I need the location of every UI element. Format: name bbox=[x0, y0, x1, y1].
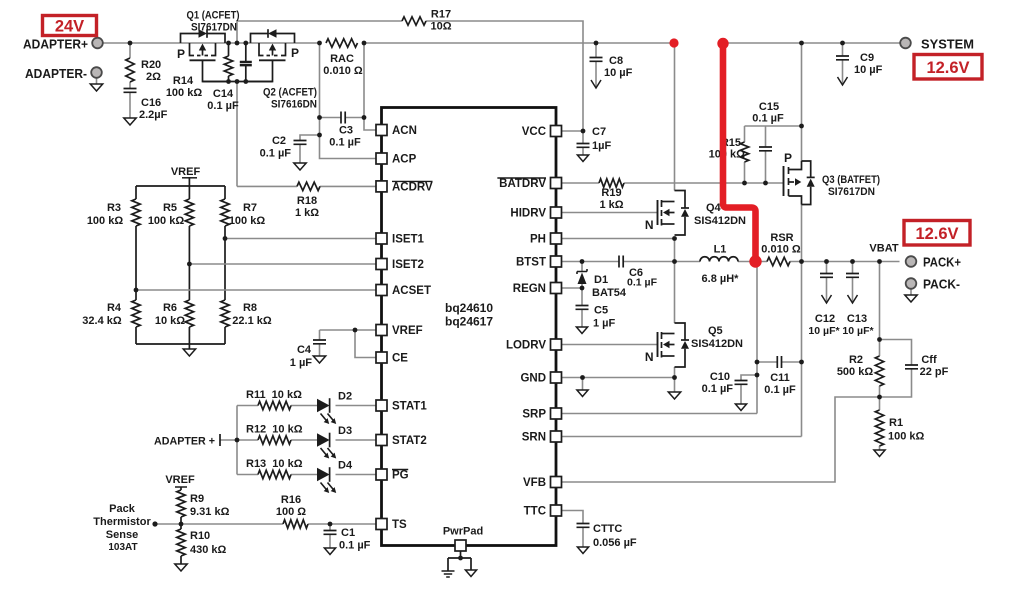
ground C7 bbox=[577, 155, 588, 162]
wire BATDRV row bbox=[562, 182, 599, 184]
wire VBAT column R2/R1 bbox=[879, 262, 881, 357]
svg-text:R11 10 kΩ: R11 10 kΩ bbox=[246, 389, 302, 401]
svg-text:HIDRV: HIDRV bbox=[510, 208, 546, 220]
svg-text:ADAPTER +: ADAPTER + bbox=[154, 436, 215, 448]
svg-text:0.056 µF: 0.056 µF bbox=[593, 537, 637, 549]
svg-text:STAT2: STAT2 bbox=[392, 435, 427, 447]
ground CTTC bbox=[577, 547, 588, 554]
wire HIDRV row bbox=[562, 212, 658, 214]
svg-text:PG: PG bbox=[392, 470, 409, 482]
red box 12.6V system bbox=[914, 55, 982, 80]
resistor R19 bbox=[599, 179, 624, 187]
svg-text:Pack: Pack bbox=[109, 503, 136, 515]
svg-text:1 µF: 1 µF bbox=[290, 357, 313, 369]
wire STAT2 row bbox=[237, 439, 258, 441]
red box 12.6V pack bbox=[904, 221, 970, 246]
svg-text:Cff: Cff bbox=[921, 354, 937, 366]
svg-text:TTC: TTC bbox=[524, 506, 546, 518]
ground arrow C13 bbox=[848, 295, 858, 303]
svg-text:BATDRV: BATDRV bbox=[499, 178, 546, 190]
transistor Q1 ACFET bbox=[181, 34, 199, 44]
wire R10 to ground bbox=[180, 524, 182, 529]
svg-text:ACP: ACP bbox=[392, 154, 417, 166]
wire Q3 column upper bbox=[801, 43, 803, 161]
svg-text:L1: L1 bbox=[714, 244, 727, 256]
capacitor C7 bbox=[577, 144, 590, 148]
wire ISET2 row bbox=[189, 263, 376, 265]
capacitor C1 bbox=[324, 531, 337, 535]
LED D2 bbox=[317, 399, 330, 413]
wire Q4-Q5 drain link bbox=[674, 239, 676, 324]
pin PH bbox=[551, 233, 562, 244]
svg-text:R5: R5 bbox=[163, 202, 177, 214]
svg-text:1 µF: 1 µF bbox=[593, 318, 616, 330]
svg-text:D4: D4 bbox=[338, 460, 353, 472]
capacitor C16 bbox=[124, 89, 137, 93]
svg-text:R3: R3 bbox=[107, 202, 121, 214]
ground C5 bbox=[576, 327, 587, 334]
svg-text:TS: TS bbox=[392, 519, 407, 531]
LED D3 bbox=[317, 433, 330, 447]
LED D4 bbox=[317, 468, 330, 482]
wire VREF to R9 bbox=[180, 487, 182, 490]
svg-text:PACK+: PACK+ bbox=[923, 255, 961, 270]
pin SRP bbox=[551, 408, 562, 419]
wire bank column R3/R4 bbox=[135, 186, 137, 199]
resistor R18 bbox=[297, 182, 320, 190]
svg-text:LODRV: LODRV bbox=[506, 340, 546, 352]
svg-text:R8: R8 bbox=[243, 302, 257, 314]
svg-text:D3: D3 bbox=[338, 425, 352, 437]
svg-text:SYSTEM: SYSTEM bbox=[921, 37, 974, 52]
svg-text:9.31 kΩ: 9.31 kΩ bbox=[190, 506, 230, 518]
wire main rail right segment to SYSTEM bbox=[728, 42, 900, 44]
wire C12 branch bbox=[826, 262, 828, 274]
svg-text:VBAT: VBAT bbox=[869, 243, 898, 255]
wire C10 stub bbox=[741, 375, 757, 381]
wire ACSET row bbox=[136, 289, 376, 291]
wire BTST row with C6 bbox=[562, 261, 619, 263]
IC U1 bq24610 outline bbox=[382, 108, 557, 546]
svg-text:N: N bbox=[645, 218, 654, 232]
wire TTC to CTTC bbox=[562, 511, 583, 524]
svg-text:100 Ω: 100 Ω bbox=[276, 506, 306, 518]
svg-text:ADAPTER+: ADAPTER+ bbox=[23, 37, 88, 52]
capacitor C8 bbox=[590, 58, 603, 62]
svg-text:SRP: SRP bbox=[522, 409, 546, 421]
pin STAT1 bbox=[376, 400, 387, 411]
capacitor C6 bbox=[619, 256, 623, 268]
svg-text:C5: C5 bbox=[594, 305, 608, 317]
ground C2 bbox=[294, 163, 306, 170]
svg-text:ISET2: ISET2 bbox=[392, 259, 424, 271]
svg-text:C11: C11 bbox=[770, 372, 790, 384]
wire REGN row bbox=[562, 287, 582, 289]
svg-text:R1: R1 bbox=[889, 417, 903, 429]
svg-text:R13 10 kΩ: R13 10 kΩ bbox=[246, 458, 303, 470]
wire bank column R7/R8 bbox=[224, 186, 226, 199]
svg-text:100 kΩ: 100 kΩ bbox=[709, 149, 746, 161]
wire GND row bbox=[562, 377, 675, 379]
svg-text:C16: C16 bbox=[141, 97, 161, 109]
transistor Q5 SIS412DN bbox=[657, 332, 659, 357]
red wire highlight bbox=[723, 44, 756, 258]
svg-text:bq24610: bq24610 bbox=[445, 301, 493, 315]
wire LED bus bbox=[236, 406, 238, 475]
pin TTC bbox=[551, 505, 562, 516]
svg-text:ACSET: ACSET bbox=[392, 285, 431, 297]
capacitor C10 bbox=[735, 381, 748, 385]
svg-text:BTST: BTST bbox=[516, 257, 546, 269]
svg-text:12.6V: 12.6V bbox=[915, 225, 958, 243]
wire RSR to battery rail bbox=[790, 261, 900, 263]
resistor RAC bbox=[326, 39, 358, 47]
svg-text:BAT54: BAT54 bbox=[592, 287, 627, 299]
svg-text:SRN: SRN bbox=[522, 432, 546, 444]
pin VFB bbox=[551, 477, 562, 488]
wire STAT1 row bbox=[237, 405, 258, 407]
svg-text:R7: R7 bbox=[243, 202, 257, 214]
svg-text:Q1 (ACFET): Q1 (ACFET) bbox=[187, 10, 240, 22]
wire Cff loop bbox=[880, 340, 912, 366]
pin STAT2 bbox=[376, 435, 387, 446]
transistor Q2 ACFET bbox=[251, 34, 269, 44]
pin TS bbox=[376, 519, 387, 530]
ground GND pin left bbox=[577, 390, 588, 397]
wire ADAPTER+ LED feed bbox=[220, 439, 237, 441]
wire main rail RAC to red dot bbox=[364, 42, 670, 44]
red node dot bottom bbox=[749, 255, 761, 267]
svg-text:0.1 µF: 0.1 µF bbox=[752, 113, 784, 125]
svg-text:C10: C10 bbox=[710, 371, 730, 383]
svg-text:R19: R19 bbox=[601, 187, 621, 199]
svg-text:10 µF: 10 µF bbox=[604, 67, 633, 79]
transistor Q4 SIS412DN bbox=[657, 200, 659, 225]
svg-text:SIS412DN: SIS412DN bbox=[691, 338, 743, 350]
wire PG row bbox=[237, 474, 258, 476]
svg-text:430 kΩ: 430 kΩ bbox=[190, 544, 227, 556]
resistor RSR bbox=[767, 257, 790, 265]
ground C1 bbox=[324, 548, 335, 555]
svg-text:0.010 Ω: 0.010 Ω bbox=[323, 65, 363, 77]
wire PH row bbox=[562, 238, 675, 240]
pin PG bbox=[376, 469, 387, 480]
svg-text:D2: D2 bbox=[338, 391, 352, 403]
svg-text:R2: R2 bbox=[849, 354, 863, 366]
pin CE bbox=[376, 352, 387, 363]
svg-text:12.6V: 12.6V bbox=[926, 59, 969, 77]
wire SRN row and riser bbox=[562, 436, 802, 438]
svg-text:STAT1: STAT1 bbox=[392, 401, 427, 413]
svg-text:D1: D1 bbox=[594, 274, 608, 286]
resistor R11 bbox=[258, 401, 291, 409]
svg-text:0.1 µF: 0.1 µF bbox=[339, 540, 371, 552]
svg-text:PH: PH bbox=[530, 234, 546, 246]
resistor R10 bbox=[177, 529, 185, 556]
pin VREF bbox=[376, 325, 387, 336]
svg-text:C15: C15 bbox=[759, 101, 779, 113]
resistor R20 bbox=[126, 58, 134, 82]
svg-text:R6: R6 bbox=[163, 302, 177, 314]
svg-text:R18: R18 bbox=[297, 195, 317, 207]
wire L1 row bbox=[675, 261, 701, 263]
pin REGN bbox=[551, 283, 562, 294]
wire GND grounds stems bbox=[582, 378, 584, 391]
svg-text:10Ω: 10Ω bbox=[430, 21, 451, 33]
wire bank column R5/R6 bbox=[188, 186, 190, 199]
terminal PACK- bbox=[906, 278, 917, 289]
svg-text:SI7616DN: SI7616DN bbox=[271, 99, 317, 111]
svg-text:RAC: RAC bbox=[330, 53, 354, 65]
ground ADAPTER- bbox=[90, 84, 102, 91]
pin LODRV bbox=[551, 339, 562, 350]
svg-text:R16: R16 bbox=[281, 494, 301, 506]
svg-text:P: P bbox=[177, 47, 185, 61]
pin BATDRV bbox=[551, 178, 562, 189]
wire C7 stem bbox=[582, 131, 584, 144]
ground PwrPad earth bbox=[442, 571, 455, 577]
svg-text:1 kΩ: 1 kΩ bbox=[599, 199, 623, 211]
svg-text:0.010 Ω: 0.010 Ω bbox=[761, 244, 801, 256]
svg-text:0.1 µF: 0.1 µF bbox=[627, 277, 658, 289]
capacitor C5 bbox=[576, 306, 589, 310]
svg-text:SI7617DN: SI7617DN bbox=[191, 22, 237, 34]
ground arrow C9 bbox=[838, 77, 848, 85]
svg-text:VCC: VCC bbox=[522, 126, 546, 138]
svg-text:R12 10 kΩ: R12 10 kΩ bbox=[246, 424, 303, 436]
svg-text:C2: C2 bbox=[272, 135, 286, 147]
pin ISET2 bbox=[376, 259, 387, 270]
svg-text:Q4: Q4 bbox=[706, 202, 722, 214]
svg-text:C13: C13 bbox=[847, 313, 867, 325]
svg-text:C8: C8 bbox=[609, 55, 623, 67]
wire ISET1 row bbox=[225, 238, 376, 240]
resistor R14 bbox=[228, 43, 230, 56]
svg-text:22.1 kΩ: 22.1 kΩ bbox=[232, 315, 272, 327]
pin HIDRV bbox=[551, 207, 562, 218]
ground GND pin right bbox=[668, 392, 680, 399]
svg-text:R10: R10 bbox=[190, 530, 210, 542]
svg-text:P: P bbox=[291, 46, 299, 60]
capacitor CTTC bbox=[577, 524, 590, 528]
wire LODRV row bbox=[562, 344, 658, 346]
svg-text:100 kΩ: 100 kΩ bbox=[888, 431, 925, 443]
svg-text:CTTC: CTTC bbox=[593, 523, 622, 535]
wire Q5 source to GND row bbox=[674, 367, 676, 378]
ground resistor bank bbox=[183, 349, 195, 356]
svg-text:REGN: REGN bbox=[513, 283, 546, 295]
svg-text:24V: 24V bbox=[55, 18, 84, 36]
capacitor C15 bbox=[759, 147, 772, 151]
resistor R1 bbox=[875, 410, 883, 446]
wire ADAPTER- ground stem bbox=[96, 78, 98, 84]
capacitor C3 bbox=[341, 112, 345, 124]
svg-text:0.1 µF: 0.1 µF bbox=[260, 148, 292, 160]
red node dot top big bbox=[717, 38, 728, 49]
svg-text:Sense: Sense bbox=[106, 529, 138, 541]
wire RAC left riser to ACP bbox=[320, 43, 377, 159]
wire TS row bbox=[155, 523, 283, 525]
svg-text:10 µF*: 10 µF* bbox=[842, 325, 874, 337]
svg-text:PACK-: PACK- bbox=[923, 277, 960, 292]
wire Q1-Q2 gate node bbox=[203, 81, 273, 83]
resistor R5 bbox=[185, 199, 193, 226]
capacitor C13 bbox=[846, 274, 859, 278]
wire CE connection bbox=[355, 330, 376, 358]
capacitor C4 bbox=[313, 340, 326, 344]
svg-text:PwrPad: PwrPad bbox=[443, 526, 483, 538]
wire resistor bank bottom bus bbox=[136, 343, 225, 345]
pin ACSET bbox=[376, 285, 387, 296]
capacitor C12 bbox=[820, 274, 833, 278]
svg-text:Q5: Q5 bbox=[708, 325, 723, 337]
svg-text:1µF: 1µF bbox=[592, 140, 611, 152]
ground PACK- bbox=[905, 295, 917, 302]
svg-text:C14: C14 bbox=[213, 88, 234, 100]
wire C13 branch bbox=[852, 262, 854, 274]
pin ACDRV bbox=[376, 181, 387, 192]
wire R9 to TS row bbox=[180, 517, 182, 524]
wire VREF stem top bbox=[188, 177, 190, 186]
ground arrow C12 bbox=[822, 295, 832, 303]
resistor R17 bbox=[402, 17, 426, 25]
svg-text:0.1 µF: 0.1 µF bbox=[207, 100, 239, 112]
svg-text:SI7617DN: SI7617DN bbox=[828, 186, 875, 198]
svg-text:2.2µF: 2.2µF bbox=[139, 109, 168, 121]
svg-text:C3: C3 bbox=[339, 125, 353, 137]
capacitor Cff bbox=[905, 365, 918, 369]
pin ISET1 bbox=[376, 233, 387, 244]
pin GND bbox=[551, 372, 562, 383]
resistor R2 bbox=[875, 356, 883, 386]
ground PwrPad triangle bbox=[465, 570, 476, 577]
capacitor C2 bbox=[294, 141, 307, 145]
resistor R13 bbox=[258, 470, 291, 478]
svg-text:Q2 (ACFET): Q2 (ACFET) bbox=[263, 87, 317, 99]
svg-text:10 µF*: 10 µF* bbox=[808, 325, 840, 337]
svg-text:10 µF: 10 µF bbox=[854, 64, 883, 76]
svg-text:0.1 µF: 0.1 µF bbox=[702, 383, 734, 395]
wire C5 column bbox=[581, 288, 583, 306]
wire VREF pin row with C4 bbox=[320, 329, 377, 331]
svg-text:C12: C12 bbox=[815, 313, 835, 325]
svg-text:C7: C7 bbox=[592, 126, 606, 138]
ground R1 bbox=[874, 450, 885, 457]
svg-text:2Ω: 2Ω bbox=[146, 71, 161, 83]
svg-text:0.1 µF: 0.1 µF bbox=[764, 384, 796, 396]
ground arrow C8 bbox=[591, 80, 601, 88]
pin ACN bbox=[376, 125, 387, 136]
wire ACDRV row bbox=[237, 185, 297, 187]
wire SRP row and riser bbox=[562, 413, 757, 415]
terminal SYSTEM bbox=[900, 38, 911, 49]
svg-text:VREF: VREF bbox=[392, 325, 423, 337]
svg-text:GND: GND bbox=[520, 373, 546, 385]
wire VCC to C7 node bbox=[562, 130, 583, 132]
red node dot top small bbox=[669, 38, 678, 47]
wire resistor bank top bus bbox=[136, 185, 225, 187]
svg-text:P: P bbox=[784, 151, 792, 165]
ground C16 bbox=[124, 118, 136, 125]
svg-text:ACDRV: ACDRV bbox=[392, 181, 433, 193]
capacitor C14 bbox=[245, 43, 247, 61]
svg-text:100 kΩ: 100 kΩ bbox=[229, 215, 266, 227]
svg-text:C1: C1 bbox=[341, 527, 355, 539]
wire C11 row bbox=[757, 361, 777, 363]
svg-text:500 kΩ: 500 kΩ bbox=[837, 366, 874, 378]
wire Q3 column lower bbox=[801, 205, 803, 262]
svg-text:R14: R14 bbox=[173, 75, 194, 87]
svg-text:Thermistor: Thermistor bbox=[93, 516, 151, 528]
svg-text:N: N bbox=[645, 350, 654, 364]
wire C1 branch bbox=[329, 524, 331, 531]
svg-text:C9: C9 bbox=[860, 52, 874, 64]
pin BTST bbox=[551, 256, 562, 267]
wire C8 branch bbox=[595, 43, 597, 58]
svg-text:ADAPTER-: ADAPTER- bbox=[25, 66, 87, 81]
pin VCC bbox=[551, 126, 562, 137]
svg-text:100 kΩ: 100 kΩ bbox=[166, 87, 203, 99]
svg-text:103AT: 103AT bbox=[108, 542, 137, 553]
svg-text:R4: R4 bbox=[107, 302, 122, 314]
svg-text:22 pF: 22 pF bbox=[920, 366, 949, 378]
wire R17 branch bbox=[237, 21, 402, 43]
inductor L1 bbox=[700, 257, 738, 262]
wire R15 column bbox=[744, 126, 746, 142]
svg-text:100 kΩ: 100 kΩ bbox=[148, 215, 185, 227]
ground C4 bbox=[313, 356, 325, 363]
wire D1 column bbox=[581, 262, 583, 272]
resistor R3 bbox=[132, 199, 140, 226]
svg-text:VREF: VREF bbox=[171, 166, 201, 178]
pin ACP bbox=[376, 153, 387, 164]
red box 24V bbox=[43, 16, 97, 36]
resistor R4 bbox=[132, 300, 140, 327]
wire Q1 gate node to R18 riser bbox=[236, 82, 238, 187]
wire R20/C16 column bbox=[129, 43, 131, 58]
resistor R16 bbox=[283, 520, 308, 528]
wire main adapter rail bbox=[103, 42, 320, 44]
capacitor C9 bbox=[836, 56, 849, 60]
svg-text:Q3 (BATFET): Q3 (BATFET) bbox=[822, 174, 880, 186]
svg-text:C4: C4 bbox=[297, 344, 312, 356]
svg-text:VREF: VREF bbox=[165, 474, 195, 486]
capacitor C11 bbox=[777, 356, 781, 368]
wire VFB row and riser bbox=[562, 397, 880, 482]
wire C9 branch bbox=[842, 43, 844, 56]
wire Q4 drain riser from system node bbox=[674, 43, 676, 191]
svg-text:VFB: VFB bbox=[523, 477, 546, 489]
svg-text:R20: R20 bbox=[141, 59, 161, 71]
svg-text:0.1 µF: 0.1 µF bbox=[329, 137, 361, 149]
resistor R12 bbox=[258, 436, 291, 444]
transistor Q3 BATFET bbox=[783, 166, 785, 196]
svg-text:ACN: ACN bbox=[392, 125, 417, 137]
wire C2 branch bbox=[300, 135, 320, 141]
svg-text:RSR: RSR bbox=[770, 232, 793, 244]
svg-text:1 kΩ: 1 kΩ bbox=[295, 207, 319, 219]
svg-text:SIS412DN: SIS412DN bbox=[694, 215, 746, 227]
wire C15/R15 node bar bbox=[745, 125, 802, 127]
svg-text:10 kΩ: 10 kΩ bbox=[155, 315, 185, 327]
svg-text:R17: R17 bbox=[431, 9, 451, 21]
ground R10 bbox=[175, 564, 187, 571]
svg-text:CE: CE bbox=[392, 353, 408, 365]
wire RAC right riser to ACN bbox=[364, 43, 376, 130]
wire C3 row bbox=[320, 117, 342, 119]
svg-text:100 kΩ: 100 kΩ bbox=[87, 215, 124, 227]
pin SRN bbox=[551, 431, 562, 442]
